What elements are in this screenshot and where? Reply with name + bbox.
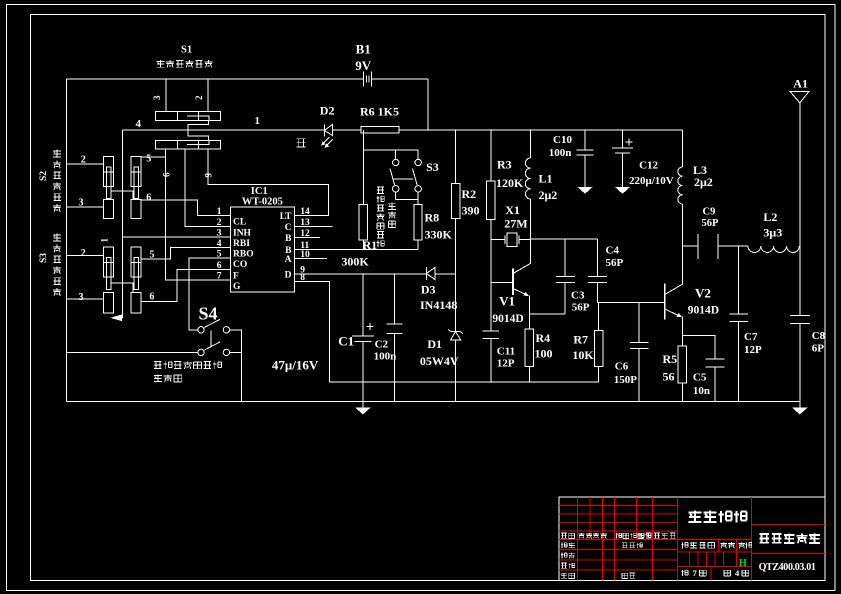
svg-text:56P: 56P	[572, 302, 590, 314]
svg-text:IN4148: IN4148	[420, 298, 457, 312]
title block frame	[559, 497, 825, 581]
capacitor C10	[584, 130, 586, 150]
svg-text:V2: V2	[695, 286, 711, 301]
resistor R1	[363, 130, 365, 205]
svg-text:QTZ400.03.01: QTZ400.03.01	[759, 562, 816, 573]
svg-text:9V: 9V	[355, 58, 372, 73]
svg-text:3: 3	[79, 292, 84, 303]
svg-text:G: G	[233, 282, 241, 292]
svg-text:120K: 120K	[496, 176, 524, 190]
svg-text:X1: X1	[505, 203, 520, 217]
svg-text:B: B	[285, 234, 292, 244]
resistor R8	[414, 205, 422, 240]
title block small labels	[561, 533, 574, 538]
svg-text:3: 3	[152, 95, 162, 100]
wire left common bus	[65, 79, 67, 401]
svg-text:10n: 10n	[693, 385, 710, 397]
svg-text:5: 5	[146, 154, 151, 165]
wire S4 lower left to bus	[66, 351, 197, 353]
svg-text:R4: R4	[536, 331, 551, 345]
switch S3 touch	[364, 149, 419, 151]
ground C1	[362, 402, 364, 408]
wire V2 collector to C9	[683, 245, 698, 247]
svg-text:C1: C1	[338, 334, 354, 349]
wire S3 contact 2	[66, 254, 103, 256]
svg-text:C10: C10	[553, 134, 572, 146]
wire V1 collector rail	[531, 238, 598, 240]
svg-text:C9: C9	[703, 207, 716, 218]
svg-text:C2: C2	[375, 339, 389, 351]
svg-text:B1: B1	[356, 42, 371, 57]
svg-text:WT-0205: WT-0205	[242, 197, 283, 208]
svg-text:1: 1	[255, 115, 261, 127]
svg-text:L2: L2	[763, 210, 777, 224]
svg-text:1: 1	[100, 238, 110, 243]
wire main rail net 1	[123, 129, 325, 131]
wire antenna line	[799, 103, 801, 316]
svg-text:7: 7	[217, 271, 222, 281]
wire S4 right to ground rail	[230, 330, 242, 402]
capacitor C4	[597, 239, 599, 276]
svg-text:47μ/16V: 47μ/16V	[272, 358, 319, 373]
LED D2	[324, 125, 332, 136]
svg-text:56P: 56P	[702, 218, 720, 229]
svg-text:3: 3	[79, 198, 84, 209]
wire S2 contact 6 to IC pin1	[141, 200, 231, 216]
capacitor C11	[483, 330, 500, 332]
svg-text:IC1: IC1	[251, 186, 268, 197]
resistor R6	[361, 126, 399, 133]
wire S1 middle to IC pin2	[185, 149, 231, 226]
svg-text:C: C	[285, 223, 292, 233]
svg-text:2: 2	[217, 218, 222, 228]
wire C9 to L2	[718, 245, 748, 247]
svg-text:2: 2	[81, 248, 86, 259]
wire S3 contact 5 to IC pin4	[141, 247, 231, 259]
svg-text:6: 6	[162, 172, 172, 177]
op-amp U1 IC1 WT-0205	[231, 207, 295, 292]
svg-text:C5: C5	[693, 372, 707, 384]
wire IC pin9 to D3 C1 C2	[294, 273, 426, 275]
capacitor C7	[738, 246, 740, 314]
switch S1	[165, 79, 167, 111]
wire S3 contact 3	[66, 298, 103, 300]
svg-text:D1: D1	[427, 337, 442, 351]
resistor R7	[598, 303, 600, 331]
svg-text:C11: C11	[497, 346, 515, 358]
svg-text:56: 56	[663, 370, 675, 384]
svg-text:6: 6	[146, 193, 151, 204]
svg-text:4: 4	[217, 239, 222, 249]
sheet count	[681, 570, 688, 576]
svg-text:A: A	[285, 255, 292, 265]
capacitor C2	[394, 274, 396, 324]
svg-text:H: H	[739, 558, 747, 569]
svg-text:100n: 100n	[549, 147, 572, 159]
wire S2 contact 5 to bus	[141, 156, 166, 158]
svg-text:3: 3	[217, 229, 222, 239]
transistor V1 9014D	[491, 282, 513, 284]
capacitor C5	[705, 358, 724, 360]
wire net 1 to IC pin3	[123, 236, 231, 238]
svg-text:C3: C3	[571, 290, 585, 302]
svg-text:S2: S2	[39, 171, 49, 181]
svg-text:150P: 150P	[614, 374, 638, 386]
svg-text:F: F	[233, 272, 239, 282]
svg-text:R1: R1	[363, 238, 378, 252]
svg-text:C8: C8	[812, 330, 826, 342]
svg-text:10K: 10K	[572, 348, 594, 362]
svg-text:R6 1K5: R6 1K5	[360, 105, 399, 119]
wire top supply rail from battery	[66, 78, 363, 80]
wire R3 to V1 base	[490, 220, 492, 332]
transistor V2 9014D	[664, 284, 666, 320]
svg-text:D2: D2	[320, 104, 335, 118]
wire bottom ground rail	[66, 401, 800, 403]
capacitor C12 electrolytic	[622, 130, 624, 148]
svg-text:C4: C4	[606, 245, 620, 257]
switch S3 bank	[104, 247, 114, 277]
svg-text:27M: 27M	[504, 217, 527, 231]
wire V2 emitter branch	[682, 336, 715, 360]
wire IC pin8 down	[294, 282, 329, 382]
svg-text:9014D: 9014D	[688, 305, 719, 317]
svg-text:RBO: RBO	[233, 249, 254, 259]
ground right	[799, 402, 801, 408]
resistor R4	[525, 329, 533, 367]
svg-text:05W4V: 05W4V	[420, 354, 459, 368]
svg-text:CO: CO	[233, 260, 247, 270]
resistor R3	[490, 130, 492, 181]
svg-text:100: 100	[535, 347, 553, 361]
ground C12	[615, 187, 631, 194]
svg-text:S3: S3	[426, 160, 439, 174]
svg-text:300K: 300K	[341, 255, 369, 269]
switch S2	[104, 157, 114, 187]
svg-text:6: 6	[149, 292, 154, 303]
svg-text:RBI: RBI	[233, 239, 250, 249]
battery B1	[363, 72, 365, 87]
svg-text:INH: INH	[233, 229, 252, 239]
wire IC pin12 stub	[294, 237, 320, 239]
svg-text:6P: 6P	[812, 342, 825, 354]
wire IC pin11 to R1 R8	[294, 249, 418, 251]
capacitor C1	[362, 274, 364, 336]
svg-text:D3: D3	[421, 283, 436, 297]
inductor L3	[682, 130, 684, 167]
svg-text:100n: 100n	[374, 351, 397, 363]
inductor L1	[530, 130, 532, 158]
svg-text:1: 1	[217, 207, 222, 217]
svg-text:S1: S1	[181, 45, 192, 56]
svg-text:R2: R2	[462, 187, 477, 201]
title text 发射电路	[688, 511, 746, 523]
svg-text:CL: CL	[233, 217, 246, 227]
inductor L2	[748, 246, 799, 252]
svg-text:12P: 12P	[497, 358, 515, 370]
capacitor C8	[790, 315, 810, 317]
capacitor C9	[697, 234, 699, 259]
svg-text:12P: 12P	[744, 344, 762, 356]
svg-text:R3: R3	[497, 158, 512, 172]
svg-text:14: 14	[300, 207, 310, 217]
wire mid ground rail	[329, 381, 598, 383]
svg-text:390: 390	[462, 204, 480, 218]
svg-text:2: 2	[194, 95, 204, 100]
wire IC pin10 stub	[294, 258, 327, 260]
wire S1 pole A to IC pin7	[166, 149, 231, 280]
wire S4 to IC pin5	[189, 258, 231, 330]
svg-text:D: D	[285, 270, 292, 280]
resistor R2	[455, 130, 457, 184]
wire V1 emitter to C3	[529, 313, 565, 315]
crystal X1 27M	[491, 239, 505, 241]
title text 塔式起重机	[759, 534, 820, 544]
svg-text:2μ2: 2μ2	[539, 188, 558, 202]
svg-text:R8: R8	[425, 211, 440, 225]
wire IC pin13 stub	[294, 226, 332, 228]
svg-text:C6: C6	[615, 361, 629, 373]
svg-text:4: 4	[136, 118, 142, 130]
svg-text:2: 2	[81, 155, 86, 166]
wire S2 contact 2	[66, 163, 103, 165]
svg-text:S3: S3	[39, 253, 49, 263]
svg-text:LT: LT	[280, 212, 292, 222]
svg-text:A1: A1	[793, 77, 808, 91]
svg-text:9: 9	[204, 173, 214, 178]
title block grid	[559, 504, 677, 506]
resistor R5	[678, 346, 686, 383]
svg-text:3μ3: 3μ3	[763, 226, 782, 240]
svg-text:56P: 56P	[606, 257, 624, 269]
svg-text:C7: C7	[744, 331, 758, 343]
ground C10	[577, 187, 593, 194]
svg-text:R5: R5	[663, 352, 678, 366]
wire S2 contact 3	[66, 206, 103, 208]
svg-text:R7: R7	[573, 333, 588, 347]
svg-text:9014D: 9014D	[492, 313, 523, 325]
svg-text:6: 6	[217, 261, 222, 271]
svg-text:2μ2: 2μ2	[694, 175, 713, 189]
wire S3 contact 6 to IC pin6	[141, 270, 231, 302]
wire S1 pole B to IC pin14	[208, 149, 328, 215]
svg-text:5: 5	[150, 250, 155, 261]
svg-text:330K: 330K	[425, 228, 453, 242]
svg-text:S4: S4	[199, 304, 218, 324]
zener diode D1 05W4V	[455, 219, 457, 332]
capacitor C3	[564, 239, 566, 276]
svg-text:220μ/10V: 220μ/10V	[629, 175, 674, 187]
capacitor C6	[638, 303, 640, 343]
wire C4 R7 to V2 base	[598, 302, 665, 304]
wire net 1 riser	[122, 130, 124, 318]
svg-text:L1: L1	[539, 172, 553, 186]
svg-text:V1: V1	[499, 294, 515, 309]
svg-text:C12: C12	[639, 160, 658, 172]
diode D3 IN4148	[425, 267, 427, 280]
